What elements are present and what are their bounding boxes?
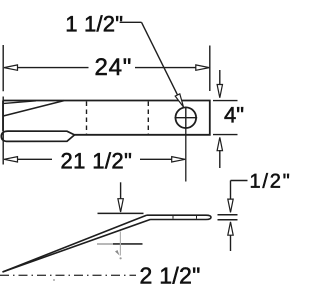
extension line 4 top [213,100,238,102]
label 4" [225,107,244,122]
arrow 4 bottom head [217,137,222,150]
dimension line 24 left segment [17,67,89,69]
side view bend lower edge [3,219,151,272]
hole centerline extension down [185,129,187,182]
baseline dash-dot [0,274,136,276]
angle reference line dark right part [113,243,143,245]
fold height extension line [98,212,144,214]
thickness arrow bottom head [228,222,233,235]
arrow 24 left [4,65,18,70]
label 2 1/2" [141,267,200,284]
thickness arrow top head [228,199,233,212]
arrow 21 1/2 right [172,157,186,162]
thickness arrow bottom line [230,235,232,251]
thickness leader horizontal [231,180,248,182]
arrow 4 top head [217,85,222,98]
right extension line 24 [209,46,211,92]
leader 1 1/2 diagonal [142,22,179,96]
bar tick 1 [172,216,174,219]
side view bend upper edge [3,215,147,272]
hole H1 circle [176,107,197,128]
leader 1 1/2 horizontal [120,21,142,23]
bevel edge line short [4,101,36,104]
bend line dashed right [147,102,149,135]
faint fold dimension vertical [119,232,121,256]
faint dot left [53,279,55,281]
bar tick 2 [196,216,198,219]
blade flared cutting end [1,131,74,141]
leader 1 1/2 arrowhead [175,94,183,107]
bend line dashed left [86,102,88,135]
bevel edge line long [3,101,64,116]
extension line 4 bottom [213,134,238,136]
left extension line [2,45,4,165]
label 24" [96,58,131,75]
label 1 1/2" [67,15,122,31]
arrow 24 right [196,65,210,70]
side view bar outline [147,215,212,219]
dimension line 24 right segment [135,67,197,69]
arrow 21 1/2 left [4,157,18,162]
hole crosshair vertical [185,107,187,130]
fold height arrow line [120,182,122,199]
thickness extension line top [218,214,238,216]
hole crosshair horizontal [175,117,198,119]
dimension line 21 1/2 left segment [17,158,52,160]
thickness extension line bottom [218,219,238,221]
label 21 1/2" [62,152,131,168]
faint dot below arrow [120,257,122,259]
thickness leader vertical [230,181,232,200]
arrow 4 top line [219,70,221,86]
faint arrowhead mark [115,250,120,256]
arrow 4 bottom line [219,150,221,168]
angle reference line faint left part [97,243,113,245]
blade left edge [2,101,4,131]
fold height arrowhead [118,199,123,212]
label 1/2" [251,173,289,188]
blade top view outline [3,101,210,135]
dimension line 21 1/2 right segment [140,158,173,160]
